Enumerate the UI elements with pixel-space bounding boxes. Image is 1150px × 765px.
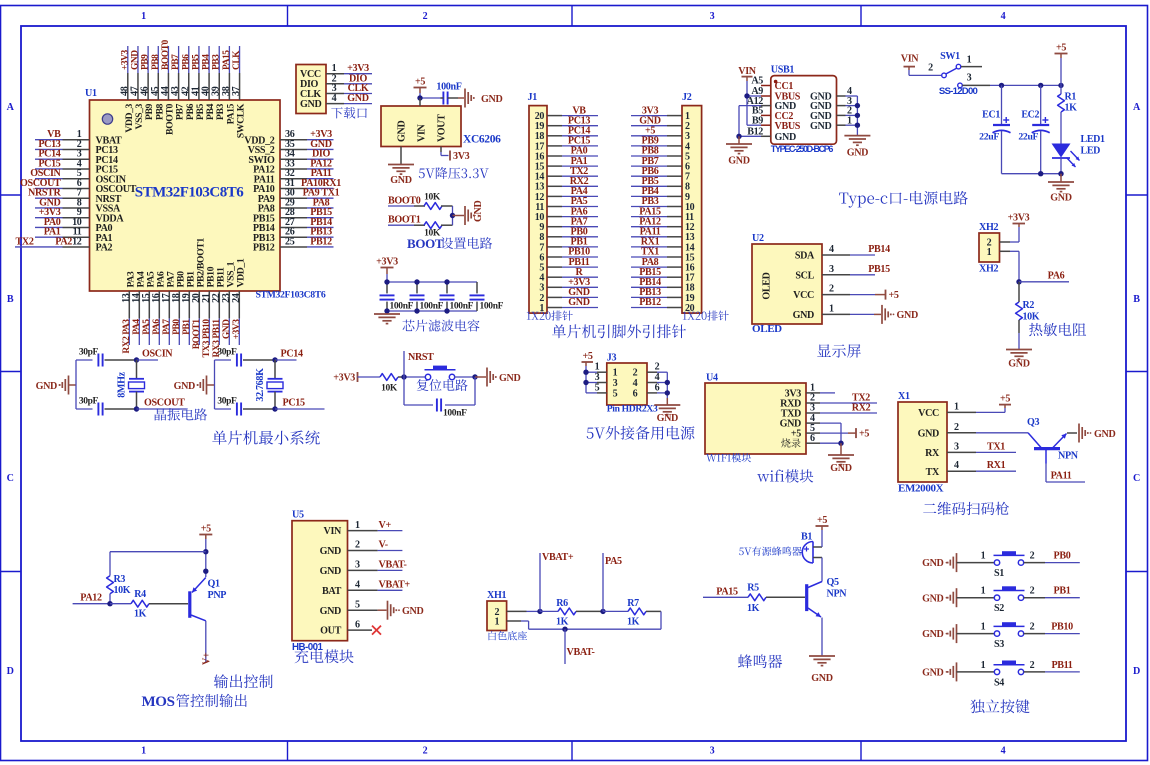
capacitor 100nF reset <box>437 399 467 419</box>
label regulator title <box>419 167 489 179</box>
svg-text:5: 5 <box>595 382 600 393</box>
wire BOOT0 to junction <box>441 206 453 216</box>
svg-text:TX3 PB10: TX3 PB10 <box>202 319 212 358</box>
svg-text:R6: R6 <box>556 598 568 609</box>
svg-text:GND: GND <box>775 132 796 143</box>
svg-text:2: 2 <box>1030 622 1035 633</box>
svg-text:GND: GND <box>397 121 408 142</box>
svg-text:+3V3: +3V3 <box>376 256 398 267</box>
capacitor EC1 22uF <box>979 85 1010 173</box>
svg-text:GND: GND <box>481 94 502 105</box>
svg-text:PB12: PB12 <box>639 297 661 308</box>
svg-text:GND: GND <box>922 593 943 604</box>
svg-text:CLK: CLK <box>232 50 242 70</box>
U5 pin 1 wire V+ <box>348 520 403 531</box>
U4 pin 2 wire TX2 <box>806 393 877 404</box>
wire Q1 collector V+ <box>202 621 213 665</box>
download port pin 1 wire/label <box>326 63 372 74</box>
J2 pin 5 wire/label PB8 <box>631 146 682 157</box>
junction at regulator VIN <box>417 95 422 100</box>
svg-text:1: 1 <box>954 401 959 412</box>
svg-text:+3V3: +3V3 <box>1008 213 1030 224</box>
svg-text:R2: R2 <box>1023 300 1035 311</box>
svg-text:GND: GND <box>1094 429 1115 440</box>
svg-text:GND: GND <box>922 629 943 640</box>
U5 pin 2 wire V- <box>348 540 403 551</box>
svg-text:R4: R4 <box>134 589 146 600</box>
svg-text:BOOT1: BOOT1 <box>192 319 202 349</box>
wire R7 to bottom rail <box>529 611 661 629</box>
svg-text:1: 1 <box>494 616 499 627</box>
J1 pin 10 wire/label PA6 <box>547 206 598 217</box>
J1 pin 16 wire/label PA0 <box>547 146 598 157</box>
mcu U1 pin 28 wire/label <box>280 207 334 218</box>
label scanner title <box>923 502 1009 515</box>
junction reset node <box>401 374 406 379</box>
capacitor 100nF filter C3 <box>440 282 474 312</box>
mcu U1 pin 37 wire/label <box>231 46 242 100</box>
svg-text:OSCIN: OSCIN <box>142 349 173 360</box>
svg-text:SS-12D00: SS-12D00 <box>939 86 978 97</box>
label buzzer title <box>738 654 782 668</box>
svg-text:R7: R7 <box>627 598 639 609</box>
svg-text:VBAT+: VBAT+ <box>379 580 411 591</box>
svg-text:PB3: PB3 <box>212 54 222 70</box>
capacitor 30pF bottom <box>215 397 276 416</box>
svg-text:4: 4 <box>355 580 360 591</box>
J2 pin 13 wire/label PA11 <box>631 227 682 238</box>
svg-text:6: 6 <box>355 619 360 630</box>
J2 pin 8 wire/label PB5 <box>631 176 682 187</box>
J2 pin 3 wire/label +5 <box>631 126 682 137</box>
power +5 flag at regulator <box>414 76 427 98</box>
svg-text:PB1: PB1 <box>1054 586 1071 597</box>
svg-text:GND: GND <box>390 175 411 186</box>
power +5 flag buzzer <box>816 515 829 530</box>
mcu U1 pin 47 wire/label <box>129 46 140 100</box>
svg-text:J1: J1 <box>528 92 538 103</box>
U5 pin 3 wire VBAT- <box>348 560 407 571</box>
resistor R2 10K <box>1016 282 1040 333</box>
USB1 right pin wires <box>837 86 858 135</box>
capacitor EC2 22uF <box>1018 85 1049 173</box>
svg-text:100nF: 100nF <box>420 302 444 312</box>
J1 pin 14 wire/label TX2 <box>547 166 598 177</box>
svg-text:GND: GND <box>1050 193 1071 204</box>
svg-text:S3: S3 <box>994 639 1004 650</box>
wire buzzer to Q5 collector <box>813 558 822 582</box>
svg-text:10K: 10K <box>424 193 441 203</box>
capacitor 100nF filter C2 <box>410 282 444 312</box>
resistor R1 1K <box>1058 85 1078 143</box>
mcu U1 pin 40 wire/label <box>201 46 212 100</box>
svg-text:XH2: XH2 <box>979 222 998 233</box>
svg-text:PB1: PB1 <box>182 319 192 335</box>
svg-text:GND: GND <box>918 428 939 439</box>
svg-text:U5: U5 <box>292 510 304 521</box>
svg-text:1: 1 <box>981 551 986 562</box>
svg-text:1K: 1K <box>134 609 147 620</box>
svg-text:32.768K: 32.768K <box>255 368 266 402</box>
svg-text:OLED: OLED <box>762 272 773 299</box>
net label PA6 wire <box>1019 271 1069 282</box>
svg-text:C: C <box>1133 473 1140 484</box>
wire J3 left rail <box>586 362 607 393</box>
power +3V3 flag thermistor <box>1008 213 1030 228</box>
svg-text:2: 2 <box>829 284 834 295</box>
svg-text:GND: GND <box>499 373 520 384</box>
wire Q3 collector PA11 <box>1046 464 1085 483</box>
J2 pin 19 wire/label PB13 <box>631 287 682 298</box>
connector XH2 body <box>979 222 1000 275</box>
wire to R6 <box>540 610 558 612</box>
svg-text:PB14: PB14 <box>868 244 890 255</box>
svg-text:2: 2 <box>1030 660 1035 671</box>
J2 pin 10 wire/label PB3 <box>631 196 682 207</box>
label filter caps title <box>403 320 480 332</box>
regulator U3 XC6206 body <box>381 106 501 147</box>
svg-text:4: 4 <box>1001 11 1006 22</box>
junction PA6 node <box>1016 279 1021 284</box>
wire gnd to S4 <box>957 660 995 672</box>
wire PA12 node to R4 <box>110 603 131 605</box>
J2 pin 7 wire/label PB6 <box>631 166 682 177</box>
J1 pin 19 wire/label PC13 <box>547 115 598 126</box>
svg-text:+5: +5 <box>415 76 425 87</box>
resistor R5 1K <box>747 582 766 614</box>
svg-text:+5: +5 <box>859 429 869 440</box>
svg-text:TX: TX <box>926 467 940 478</box>
J1 pin 11 wire/label PA5 <box>547 196 598 207</box>
mcu U1 pin 31 wire/label <box>280 178 341 189</box>
svg-text:XH2: XH2 <box>979 264 998 275</box>
mcu U1 pin names inside <box>96 103 275 287</box>
mcu U1 pin 14 wire/label <box>131 291 142 345</box>
ground button S3 <box>922 624 956 643</box>
svg-text:24: 24 <box>231 293 242 303</box>
svg-text:100nF: 100nF <box>480 302 504 312</box>
J2 pin 11 wire/label PA15 <box>631 206 682 217</box>
svg-text:USB1: USB1 <box>771 65 795 76</box>
ground button S1 <box>922 553 956 572</box>
wire resistor to junction <box>398 376 426 378</box>
svg-text:4: 4 <box>332 93 337 104</box>
svg-text:S1: S1 <box>994 568 1004 579</box>
wire crystal left rail <box>214 360 216 409</box>
J1 pin 2 wire/label GND <box>547 287 598 298</box>
wire gnd to S2 <box>957 586 995 598</box>
svg-text:OUT: OUT <box>320 626 341 637</box>
U2 pin 4 wire PB14 <box>822 244 890 255</box>
svg-text:CC1: CC1 <box>775 81 794 92</box>
svg-text:GND: GND <box>320 606 341 617</box>
mcu U1 pin 8 wire/label <box>35 197 90 208</box>
mcu U1 pin 12 wire/label <box>15 236 90 247</box>
svg-text:1: 1 <box>981 586 986 597</box>
J1 pin 3 wire/label +3V3 <box>547 277 598 288</box>
J2 pin 18 wire/label PB14 <box>631 277 682 288</box>
ground at regulator cap <box>458 89 502 108</box>
svg-text:PB4: PB4 <box>202 54 212 70</box>
X1 pin 2 wire to Q3 <box>947 422 1028 433</box>
svg-text:EM2000X: EM2000X <box>898 483 944 495</box>
svg-text:PB8: PB8 <box>151 54 161 70</box>
svg-text:2: 2 <box>423 11 428 22</box>
XH1 pin1 wire <box>507 621 529 629</box>
J3 right pin labels <box>655 362 660 394</box>
svg-text:VOUT: VOUT <box>437 114 448 142</box>
power VIN flag at USB1 <box>738 66 757 81</box>
ground crystal 8MHz <box>36 376 76 395</box>
mcu U1 pin 3 wire/label <box>35 149 90 160</box>
svg-text:GND: GND <box>36 381 57 392</box>
mcu U1 pin 32 wire/label <box>280 168 334 179</box>
mcu U1 body <box>85 88 326 301</box>
download port pin 2 wire/label <box>326 73 372 84</box>
connector J1 header body <box>528 92 548 314</box>
svg-text:3: 3 <box>595 372 600 383</box>
wire crystal left rail <box>75 360 77 409</box>
J1 pin 15 wire/label PA1 <box>547 156 598 167</box>
power +5 flag J3 <box>582 351 594 362</box>
wire R5 to Q5 base <box>766 596 805 598</box>
svg-text:1: 1 <box>981 660 986 671</box>
svg-text:R3: R3 <box>114 574 126 585</box>
mcu U1 pin 6 wire/label <box>20 178 90 189</box>
U2 pin 3 wire PB15 <box>822 264 890 275</box>
svg-text:OSCOUT: OSCOUT <box>144 398 185 409</box>
svg-text:4: 4 <box>655 372 660 383</box>
J2 pin 12 wire/label PA12 <box>631 216 682 227</box>
connector P1 download port <box>296 65 326 114</box>
svg-text:+5: +5 <box>582 351 592 362</box>
ground button S4 <box>922 662 956 681</box>
svg-text:U1: U1 <box>85 88 97 99</box>
mcu U1 pin 29 wire/label <box>280 197 334 208</box>
svg-text:PA4: PA4 <box>132 319 142 335</box>
resistor R4 1K <box>131 589 149 620</box>
transistor Q5 NPN <box>807 577 848 617</box>
svg-text:37: 37 <box>231 86 242 96</box>
svg-text:VDD_1: VDD_1 <box>235 258 246 287</box>
svg-text:BOOT0: BOOT0 <box>161 40 171 70</box>
ground at regulator <box>388 165 414 187</box>
svg-text:1K: 1K <box>747 603 760 614</box>
svg-text:PB15: PB15 <box>868 264 890 275</box>
svg-text:PA11: PA11 <box>1051 471 1072 482</box>
svg-text:TX2: TX2 <box>16 236 34 247</box>
power VIN flag at switch <box>901 54 920 71</box>
mcu U1 pin 34 wire/label <box>280 149 334 160</box>
svg-text:+5: +5 <box>791 429 801 440</box>
net label BOOT1 wire <box>388 215 425 226</box>
capacitor 100nF filter C1 <box>380 282 414 312</box>
label J2 1X20 <box>683 311 729 321</box>
pushbutton S4 <box>994 661 1025 689</box>
J1 pin 12 wire/label PA4 <box>547 186 598 197</box>
svg-text:NRST: NRST <box>408 352 434 363</box>
U5 pin 5 wire GND <box>348 599 424 619</box>
svg-text:100nF: 100nF <box>390 302 414 312</box>
net label NRST wire <box>404 351 434 377</box>
J2 pin 1 wire/label 3V3 <box>631 105 682 116</box>
svg-text:J3: J3 <box>607 352 617 363</box>
net label PA5 wire <box>603 553 622 611</box>
ground USB1 left <box>726 136 752 166</box>
svg-text:30pF: 30pF <box>217 348 237 358</box>
svg-text:VIN: VIN <box>738 66 757 77</box>
svg-text:STM32F103C8T6: STM32F103C8T6 <box>135 185 245 201</box>
svg-text:GND: GND <box>810 121 831 132</box>
junction MOS rail <box>203 549 208 554</box>
svg-text:GND: GND <box>174 381 195 392</box>
J1 pin 18 wire/label PC14 <box>547 126 598 137</box>
ground U4 <box>828 443 854 474</box>
junction Q1 emitter <box>203 569 208 574</box>
svg-text:PB10: PB10 <box>1051 622 1073 633</box>
svg-text:4: 4 <box>829 244 834 255</box>
svg-text:V-: V- <box>379 540 388 551</box>
net label VBAT- wire <box>565 629 594 664</box>
svg-text:GND: GND <box>222 319 232 339</box>
svg-text:A: A <box>1133 102 1141 113</box>
svg-text:2: 2 <box>954 422 959 433</box>
net label VBAT+ wire <box>540 552 574 611</box>
resistor 10K reset <box>380 374 398 394</box>
svg-text:PA12: PA12 <box>80 593 102 604</box>
U5 pin 6 wire no-connect <box>348 619 382 634</box>
capacitor 30pF bottom <box>76 397 137 416</box>
download port pin 4 wire/label <box>326 93 372 104</box>
svg-text:3: 3 <box>967 73 972 84</box>
svg-text:PB0: PB0 <box>172 319 182 335</box>
wire PA5 node to R7 <box>603 610 628 612</box>
svg-text:+5: +5 <box>889 290 899 301</box>
label Type-c title <box>839 191 968 208</box>
svg-text:B1: B1 <box>801 532 812 543</box>
svg-text:PB12: PB12 <box>310 236 332 247</box>
svg-text:XC6206: XC6206 <box>463 134 501 146</box>
mcu U1 pin 4 wire/label <box>35 158 90 169</box>
svg-text:C: C <box>7 473 14 484</box>
wire +5 to rail <box>205 539 207 577</box>
mcu U1 pin 22 wire/label <box>211 291 222 357</box>
label buttons title <box>970 699 1029 713</box>
svg-text:PA15: PA15 <box>222 50 232 70</box>
svg-text:R1: R1 <box>1065 92 1077 103</box>
svg-text:8MHz: 8MHz <box>117 371 128 397</box>
wire switch pin3 to rail <box>962 84 1061 86</box>
mcu U1 pin 25 wire/label <box>280 236 334 247</box>
mcu U1 pin 43 wire/label <box>170 46 181 100</box>
label headers title <box>552 324 686 338</box>
mcu U1 pin 27 wire/label <box>280 217 334 228</box>
mcu U1 pin 9 wire/label <box>35 207 90 218</box>
svg-text:PA2: PA2 <box>96 243 113 254</box>
svg-text:1K: 1K <box>1065 103 1078 114</box>
U4 pin 4 wire GND <box>806 413 841 443</box>
junctions power bottom rail <box>1038 171 1064 176</box>
svg-text:Q3: Q3 <box>1027 417 1040 428</box>
svg-text:RX: RX <box>925 448 940 459</box>
svg-text:6: 6 <box>810 433 815 444</box>
svg-text:PB6: PB6 <box>181 54 191 70</box>
junctions J3 left <box>583 370 588 386</box>
mcu U1 pin 38 wire/label <box>221 46 232 100</box>
J1 pin 8 wire/label PB0 <box>547 227 598 238</box>
label BOOT title <box>407 236 492 251</box>
J1 pin 4 wire/label R <box>547 267 598 278</box>
crystal 8MHz <box>117 360 145 409</box>
mcu U1 pin 41 wire/label <box>190 46 201 100</box>
J2 pin 15 wire/label TX1 <box>631 247 682 258</box>
mcu U1 pin 5 wire/label <box>30 168 89 179</box>
junction VBAT- node <box>562 627 567 632</box>
svg-text:100nF: 100nF <box>450 302 474 312</box>
svg-text:100nF: 100nF <box>436 82 461 93</box>
capacitor 30pF top <box>76 348 137 367</box>
svg-text:U4: U4 <box>706 373 718 384</box>
svg-text:GND: GND <box>847 148 868 159</box>
svg-text:U2: U2 <box>752 233 764 244</box>
svg-text:PA6: PA6 <box>152 319 162 335</box>
pin U3 VIN stub <box>419 98 421 106</box>
svg-text:D: D <box>7 666 14 677</box>
svg-text:4: 4 <box>954 460 959 471</box>
X1 pin 1 wire to +5 <box>947 394 1011 413</box>
svg-text:GND: GND <box>830 463 851 474</box>
svg-text:1: 1 <box>141 746 146 757</box>
label display title <box>817 344 861 358</box>
net label BOOT0 wire <box>388 195 425 206</box>
svg-text:GND: GND <box>922 558 943 569</box>
label wifi title <box>757 469 813 482</box>
U2 pin 2 wire +5 <box>822 284 899 302</box>
wire R4 to Q1 base <box>149 603 188 605</box>
ground buzzer <box>809 656 835 684</box>
J1 pin 17 wire/label PC15 <box>547 136 598 147</box>
svg-text:SWCLK: SWCLK <box>236 103 247 138</box>
svg-text:+3V3: +3V3 <box>120 49 130 70</box>
capacitor 30pF top <box>215 348 276 367</box>
mcu U1 pin 7 wire/label <box>28 188 89 199</box>
wire VIN to VBUS pins <box>747 81 761 125</box>
J2 pin 17 wire/label PB15 <box>631 267 682 278</box>
junction U4 gnd <box>838 441 843 446</box>
scanner X1 body <box>898 391 947 495</box>
J3 left pin labels <box>595 362 600 394</box>
svg-text:PC14: PC14 <box>281 349 303 360</box>
svg-text:3V3: 3V3 <box>453 151 470 162</box>
svg-text:STM32F103C8T6: STM32F103C8T6 <box>256 290 326 301</box>
module U5 body <box>292 510 348 654</box>
label minimum system title <box>212 430 320 444</box>
svg-text:NPN: NPN <box>827 589 848 600</box>
label J3 title <box>587 426 695 440</box>
mcu U1 pin 11 wire/label <box>35 227 90 238</box>
XH2 pin1 wire down <box>1000 251 1020 281</box>
svg-text:25: 25 <box>285 236 295 247</box>
svg-text:GND: GND <box>568 297 589 308</box>
mcu U1 pin 20 wire/label <box>191 291 202 349</box>
svg-text:30pF: 30pF <box>217 397 237 407</box>
svg-text:GND: GND <box>300 99 321 110</box>
mcu U1 pin 2 wire/label <box>35 139 90 150</box>
svg-text:VIN: VIN <box>417 123 428 142</box>
svg-text:GND: GND <box>320 566 341 577</box>
svg-text:10K: 10K <box>381 384 398 394</box>
label charging title <box>295 649 354 663</box>
